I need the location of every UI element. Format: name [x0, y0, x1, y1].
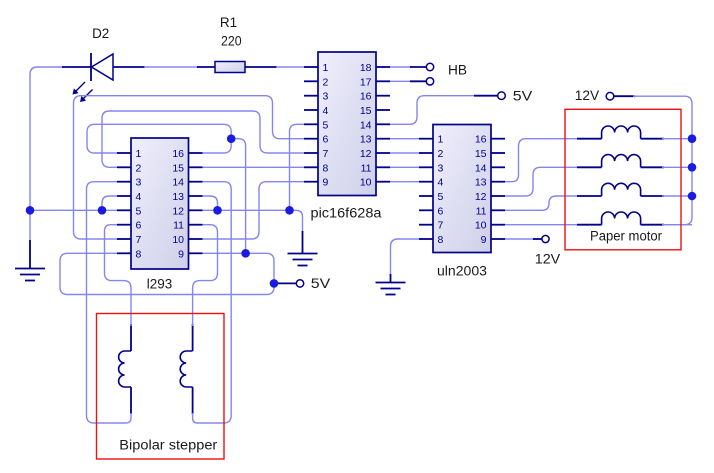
svg-text:uln2003: uln2003 — [437, 264, 487, 279]
svg-text:17: 17 — [360, 76, 372, 88]
svg-text:1: 1 — [438, 134, 444, 146]
svg-text:10: 10 — [360, 177, 372, 189]
svg-text:12V: 12V — [535, 252, 561, 267]
svg-text:12V: 12V — [575, 88, 600, 103]
svg-text:5V: 5V — [513, 88, 533, 103]
svg-text:7: 7 — [136, 234, 142, 246]
svg-text:D2: D2 — [92, 26, 109, 41]
svg-text:5V: 5V — [311, 276, 331, 291]
svg-text:l293: l293 — [147, 277, 173, 292]
svg-text:11: 11 — [361, 162, 372, 174]
svg-text:3: 3 — [438, 162, 444, 174]
svg-text:2: 2 — [438, 148, 444, 160]
svg-text:11: 11 — [476, 205, 487, 217]
svg-text:13: 13 — [475, 177, 487, 189]
svg-text:13: 13 — [360, 134, 372, 146]
svg-text:pic16f628a: pic16f628a — [311, 205, 383, 220]
svg-text:1: 1 — [323, 62, 329, 74]
svg-text:3: 3 — [323, 91, 329, 103]
svg-text:11: 11 — [173, 220, 184, 232]
svg-text:14: 14 — [360, 119, 372, 131]
svg-text:16: 16 — [172, 148, 184, 160]
svg-text:9: 9 — [178, 248, 184, 260]
svg-text:15: 15 — [360, 105, 372, 117]
svg-text:8: 8 — [323, 162, 329, 174]
svg-text:4: 4 — [136, 191, 142, 203]
svg-text:15: 15 — [172, 162, 184, 174]
svg-text:1: 1 — [136, 148, 142, 160]
svg-text:12: 12 — [475, 191, 487, 203]
svg-text:7: 7 — [438, 220, 444, 232]
svg-text:220: 220 — [221, 34, 242, 49]
svg-text:5: 5 — [136, 205, 142, 217]
svg-text:14: 14 — [172, 177, 184, 189]
svg-text:6: 6 — [323, 134, 329, 146]
svg-text:9: 9 — [323, 177, 329, 189]
svg-text:10: 10 — [172, 234, 184, 246]
svg-text:12: 12 — [360, 148, 372, 160]
svg-text:4: 4 — [323, 105, 329, 117]
svg-text:4: 4 — [438, 177, 444, 189]
svg-text:9: 9 — [481, 234, 487, 246]
svg-text:2: 2 — [136, 162, 142, 174]
svg-text:13: 13 — [172, 191, 184, 203]
svg-text:5: 5 — [438, 191, 444, 203]
svg-text:8: 8 — [136, 248, 142, 260]
svg-text:5: 5 — [323, 119, 329, 131]
svg-text:10: 10 — [475, 220, 487, 232]
svg-text:Paper motor: Paper motor — [590, 229, 662, 244]
svg-text:6: 6 — [136, 220, 142, 232]
svg-text:16: 16 — [360, 91, 372, 103]
svg-text:12: 12 — [172, 205, 184, 217]
svg-text:15: 15 — [475, 148, 487, 160]
svg-text:7: 7 — [323, 148, 329, 160]
svg-text:Bipolar stepper: Bipolar stepper — [119, 438, 218, 453]
svg-text:16: 16 — [475, 134, 487, 146]
svg-text:18: 18 — [360, 62, 372, 74]
svg-text:2: 2 — [323, 76, 329, 88]
svg-text:R1: R1 — [220, 15, 237, 30]
svg-text:HB: HB — [448, 63, 467, 78]
svg-text:14: 14 — [475, 162, 487, 174]
svg-text:6: 6 — [438, 205, 444, 217]
svg-text:3: 3 — [136, 177, 142, 189]
svg-text:8: 8 — [438, 234, 444, 246]
